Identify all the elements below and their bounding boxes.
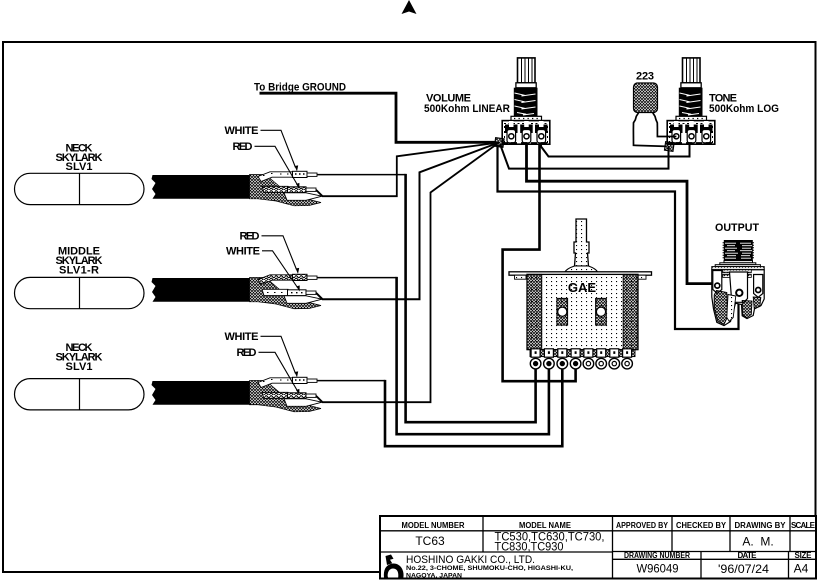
leader red2 [262,236,297,270]
ground junction X on volume case [494,138,504,148]
threaded barrel [724,240,753,261]
leader white2 [262,251,298,288]
svg-text:500Kohm LINEAR: 500Kohm LINEAR [424,103,510,115]
title block [380,516,816,579]
pickup NECK SKYLARK SLV1 (bottom) label [56,342,103,373]
svg-text:DATE: DATE [738,551,758,560]
svg-text:SLV1: SLV1 [66,361,93,373]
plate tab right [635,275,647,279]
hatched prong far right [753,297,761,308]
pickup NECK SKYLARK SLV1 (top) label [56,143,103,174]
svg-text:RED: RED [240,231,260,243]
pickup NECK (bottom) body [15,379,145,410]
leader white1 [261,130,296,167]
lever shaft [574,219,589,266]
wire volume case to tone case ground link [500,144,669,169]
svg-text:SIZE: SIZE [795,551,813,560]
svg-text:223: 223 [636,71,654,83]
header texts [402,521,816,560]
ground junction X on tone case [664,142,674,152]
pot body [502,121,550,145]
shield braid block+flag [250,175,322,206]
pickup MIDDLE body [15,277,145,308]
potentiometer VOLUME (U-pot symbol) [502,58,550,144]
white lead tube [258,172,293,182]
red lead tube [262,186,288,192]
left solder lug (tip) [713,271,722,294]
shaft collar [516,83,536,88]
svg-text:DRAWING BY: DRAWING BY [735,521,787,530]
svg-text:To Bridge GROUND: To Bridge GROUND [254,82,346,94]
svg-text:TC830,TC930: TC830,TC930 [495,540,564,554]
lug posts [505,121,548,133]
svg-text:RED: RED [233,141,253,153]
lug 2 [522,130,531,143]
output jack [712,240,764,326]
lug 1 [507,130,516,143]
svg-text:WHITE: WHITE [225,125,259,137]
mounting plate [509,272,652,275]
pickup NECK (top) body [15,173,145,204]
dotted prong middle [727,295,736,322]
cable 2 (middle) shielded cable, red lead on top [152,274,323,309]
left: header underline [380,530,613,532]
top center registration triangle [402,0,417,14]
red lead ferrule [288,187,307,193]
switch terminals 1-8 [530,349,632,369]
svg-text:NAGOYA, JAPAN: NAGOYA, JAPAN [406,572,462,579]
svg-text:TC63: TC63 [415,534,445,548]
hatched prong left [714,291,727,325]
stepped collar [724,261,753,263]
right solder lug [754,275,763,298]
wire volume lug2 to output jack tip [527,140,717,284]
right hatched column [623,274,638,349]
inner zigzag bands [723,270,752,273]
right: value row underline [613,551,817,553]
svg-text:DRAWING NUMBER: DRAWING NUMBER [624,551,690,560]
center sleeve contact [730,272,748,302]
leader red1 [255,146,298,185]
svg-text:GAE: GAE [568,280,597,295]
body bottom dashes [503,142,547,144]
leader red3 [259,352,298,391]
wire cable3 white signal to switch lug3 [317,380,385,382]
red (top) lead tube [258,275,293,285]
capacitor right leg to tone lug1 [653,113,677,137]
slotted post left [557,298,568,325]
main vertical split [612,516,614,579]
wire cable2 red signal to switch lug2 [317,277,397,279]
svg-text:SLV1: SLV1 [66,161,93,173]
svg-text:500Kohm LOG: 500Kohm LOG [709,103,779,115]
svg-text:A4: A4 [794,562,809,576]
terminal strip [530,350,635,357]
jack body [712,270,764,326]
left hatched column [527,274,542,349]
white (bottom) lead tube [262,289,288,295]
white lead ferrule [293,171,308,177]
wire cable1 red+shield ground to volume case [316,143,499,197]
knurled shaft [518,58,536,83]
cable 1 (neck top) shielded cable with white/red leads [152,171,323,206]
potentiometer TONE [667,58,715,144]
svg-text:W96049: W96049 [637,562,679,576]
wire volume case to output jack sleeve [498,145,739,329]
svg-text:WHITE: WHITE [225,331,259,343]
jacket [152,175,250,199]
pickup MIDDLE SKYLARK SLV1-R label [56,246,103,277]
capacitor left leg to tone case ground [633,113,666,147]
shaft flare base [565,266,598,272]
threaded bushing [514,88,538,117]
wire bridge ground to volume case junction [260,93,497,142]
cable 3 (neck bottom) shielded cable [152,377,323,412]
hatched prong right [742,301,752,318]
wire cable2 white+shield ground to volume case [316,143,499,300]
svg-text:APPROVED BY: APPROVED BY [616,521,669,530]
plate tab left [515,275,527,279]
switch body [527,274,638,349]
svg-text:No.22, 3-CHOME, SHUMOKU-CHO, H: No.22, 3-CHOME, SHUMOKU-CHO, HIGASHI-KU, [406,565,573,572]
svg-text:RED: RED [237,347,257,359]
svg-text:SCALE: SCALE [791,521,816,530]
right: upper dividers [671,516,673,552]
5-way switch GAE [509,219,652,357]
zigzag flange band [712,267,764,270]
wire cable3 red+shield ground to volume case [316,143,499,403]
svg-text:'96/07/24: '96/07/24 [718,562,769,576]
wire cable1 white signal to switch lug1 [317,174,406,176]
svg-text:A. M.: A. M. [742,535,773,549]
svg-text:CHECKED BY: CHECKED BY [676,521,727,530]
mounting flange [511,116,542,121]
svg-text:SLV1-R: SLV1-R [59,265,99,277]
bare-end pennant [284,193,322,201]
left: row line above Hoshino [380,551,613,553]
svg-text:MODEL NUMBER: MODEL NUMBER [402,521,465,530]
left: model split [482,516,484,552]
right: header underline [613,530,817,532]
svg-text:WHITE: WHITE [226,246,260,258]
wire volume lug3 to switch lug4 [503,140,576,381]
wire volume lug3 to tone lug2 [541,141,690,157]
right: lower dividers [700,552,702,579]
leader white3 [261,336,296,373]
svg-text:OUTPUT: OUTPUT [715,222,759,234]
right: lower header underline [613,558,817,560]
slotted post right [596,298,607,325]
Hoshino logo mark [384,555,404,578]
capacitor 223 body [634,83,658,113]
lug 3 [537,130,546,143]
